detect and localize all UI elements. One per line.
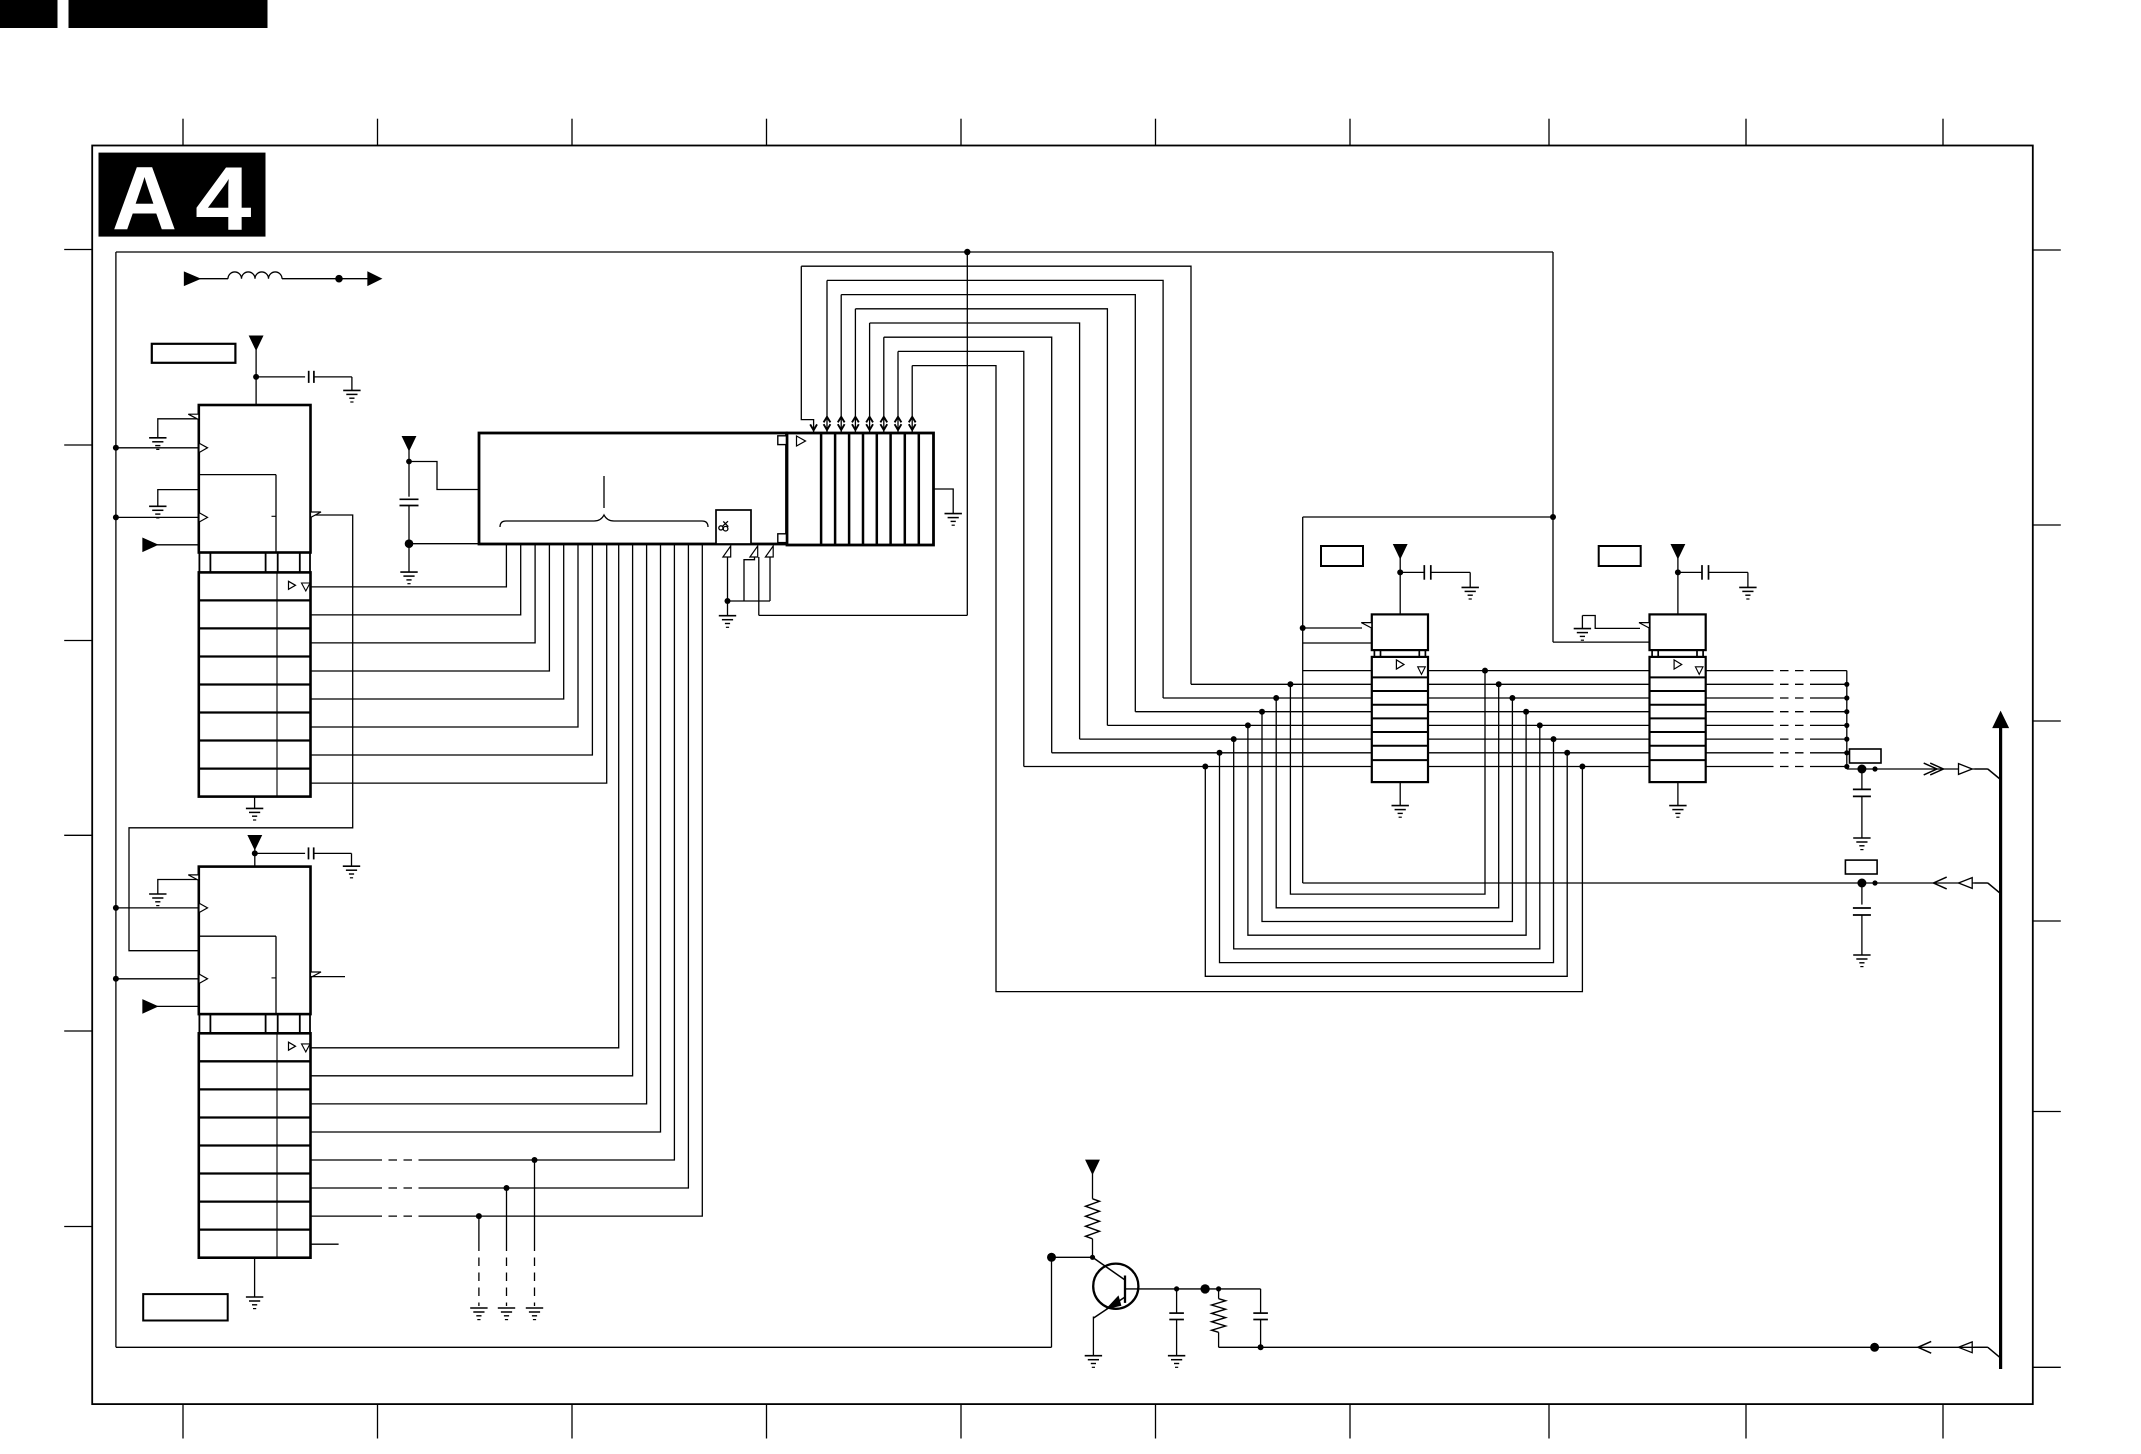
- row symbols U5: [289, 1042, 296, 1050]
- wire U3 right to ground: [934, 489, 954, 514]
- ground U1 bottom: [254, 797, 256, 809]
- value box U1: [152, 344, 236, 363]
- IC U1 inner section: [199, 474, 276, 476]
- chevron J2: [1934, 877, 1947, 889]
- ground C2: [343, 865, 360, 867]
- upper wire nest (U3 to bus): [801, 266, 1191, 684]
- pin clk flag U4: [1639, 623, 1650, 629]
- wire U2 power entry: [409, 462, 479, 490]
- pin in2 U1: [199, 513, 208, 523]
- pin in2 U5: [199, 974, 208, 984]
- IC U1 body: [199, 405, 311, 553]
- IC U1 input wires: [116, 447, 199, 449]
- IC U4 row symbols: [1674, 660, 1682, 669]
- IC U4 header tabs: [1651, 650, 1653, 657]
- power V+ U4: [1672, 545, 1685, 558]
- connector J2 input: [1845, 860, 1877, 874]
- ground U1 clk: [149, 437, 166, 439]
- IC U3ic resistor rows: [1372, 657, 1428, 782]
- wire U1 cascade out to U5: [129, 515, 353, 951]
- U3 top entry arrows: [801, 266, 813, 433]
- node Q1 collector: [1200, 1284, 1209, 1293]
- capacitor C6: [1260, 1289, 1262, 1313]
- lower wire nest (bit shift wrap): [1287, 681, 1293, 687]
- ground cap U3ic: [1462, 586, 1479, 588]
- power V+ Q1: [1086, 1160, 1099, 1173]
- wire to edge connector J2: [1303, 882, 1988, 884]
- capacitor U4: [1678, 571, 1702, 573]
- pin clk flag U1: [188, 414, 199, 420]
- wire clock feed U4: [1553, 641, 1650, 643]
- capacitor C2: [255, 852, 305, 854]
- resistor R2: [1216, 1286, 1221, 1291]
- power V+ for U2: [403, 437, 416, 450]
- net arrow with inductor L1: [185, 272, 200, 285]
- ground J2 cap: [1853, 954, 1870, 956]
- value box U5: [143, 1294, 228, 1320]
- net CLK main distribution wire: [116, 251, 1553, 253]
- connector J3 input: [1870, 1343, 1879, 1352]
- bus collector vertical: [1846, 671, 1848, 769]
- capacitor C5: [1174, 1286, 1179, 1291]
- IC U5 input wires: [116, 907, 199, 909]
- bus wires into U3ic (left segments): [1303, 670, 1372, 672]
- U2 internal mark: [603, 476, 605, 508]
- pin out flag U1: [311, 512, 322, 518]
- pin out flag U5: [311, 972, 322, 978]
- transistor Q1: [1093, 1264, 1138, 1309]
- wire U1 clock gnd stub: [158, 419, 199, 438]
- U2 aux square with symbol: [716, 510, 751, 544]
- latch block U3: [787, 433, 934, 545]
- bus arrow (vertical thick net): [1999, 725, 2002, 1369]
- DAC block U2: [479, 433, 787, 544]
- ground C5: [1168, 1355, 1185, 1357]
- chevron J3: [1918, 1341, 1931, 1353]
- ground U5 bottom: [254, 1258, 256, 1297]
- ground U4 clock: [1574, 628, 1591, 630]
- capacitor C1: [256, 376, 305, 378]
- row 8 stub U5: [311, 1243, 339, 1245]
- IC U5 body: [199, 867, 311, 1015]
- wire J3 run: [1219, 1346, 1988, 1348]
- wire U1 gnd stub 2: [158, 490, 199, 507]
- IC U3ic row symbols: [1396, 660, 1404, 669]
- bus wires U3ic to U4 (middle segments): [1428, 670, 1650, 672]
- IC U5 body tabs: [198, 1014, 200, 1033]
- ground C3: [408, 544, 410, 572]
- chevrons J1: [1924, 763, 1937, 775]
- ground Q1 emitter: [1085, 1355, 1102, 1357]
- page tab 2 (black header bar): [69, 0, 268, 28]
- wire U5 clock gnd stub: [158, 880, 199, 895]
- pin arrow U5: [143, 1000, 157, 1013]
- IC U1 body tabs: [198, 553, 200, 573]
- bus wires U2 down to U5: [311, 544, 619, 1048]
- ground U3: [945, 513, 962, 515]
- connector J1 output: [1847, 768, 1988, 770]
- pin clk flag U5: [188, 875, 199, 881]
- IC U5 resistor-array rows: [199, 1033, 311, 1257]
- svg-text:A: A: [112, 150, 177, 250]
- IC U1 resistor-array rows: [199, 572, 311, 796]
- power V+ for U5: [248, 836, 261, 849]
- pin in1 U5: [199, 903, 208, 913]
- U2 brace: [500, 515, 708, 527]
- ground C1: [343, 389, 360, 391]
- wire clock feed U3ic pins: [1303, 627, 1362, 629]
- capacitor U3ic: [1400, 571, 1424, 573]
- wire center select net (from top line down to mux pins): [966, 252, 968, 615]
- page tab 1 (black header bar): [0, 0, 58, 28]
- svg-text:4: 4: [195, 150, 252, 250]
- IC U3ic header tabs: [1373, 650, 1375, 657]
- value box U4: [1599, 546, 1641, 566]
- sheet label A4: [99, 153, 266, 237]
- IC U4 header: [1650, 614, 1706, 650]
- test grounds with dashed leads: [532, 1157, 538, 1163]
- power V+ for U1: [250, 336, 263, 349]
- ground cap U4: [1739, 586, 1756, 588]
- wire Q1 base node: [1047, 1253, 1056, 1262]
- pin in1 U1: [199, 443, 208, 453]
- ground U1 pin: [149, 505, 166, 507]
- U3 clock symbol: [797, 436, 806, 446]
- bus wires right of U4 with dashed section: [1706, 670, 1765, 672]
- IC U5 inner section: [199, 935, 276, 937]
- ground J1 cap: [1853, 837, 1870, 839]
- ground U2 aux: [727, 601, 729, 616]
- IC U3ic header: [1372, 614, 1428, 650]
- row symbols U1: [289, 581, 296, 589]
- ground U4 bottom: [1677, 782, 1679, 806]
- pins below U2 aux: [723, 546, 731, 557]
- IC U4 resistor rows: [1650, 657, 1706, 782]
- U2-U3 link notches: [778, 436, 787, 445]
- pin arrow U1: [143, 539, 157, 552]
- wire CLK to right IC group: [1552, 252, 1554, 642]
- bus wires U1 to U2 (fan): [311, 544, 507, 587]
- capacitor C3: [400, 498, 419, 500]
- ground U5 clk: [149, 893, 166, 895]
- node CLK junction at top: [964, 249, 970, 255]
- resistor R1: [1086, 1199, 1100, 1239]
- pin clk flag U3ic: [1361, 623, 1372, 629]
- ground U3ic bottom: [1399, 782, 1401, 806]
- value box U3ic: [1321, 546, 1363, 566]
- power V+ U3ic: [1394, 545, 1407, 558]
